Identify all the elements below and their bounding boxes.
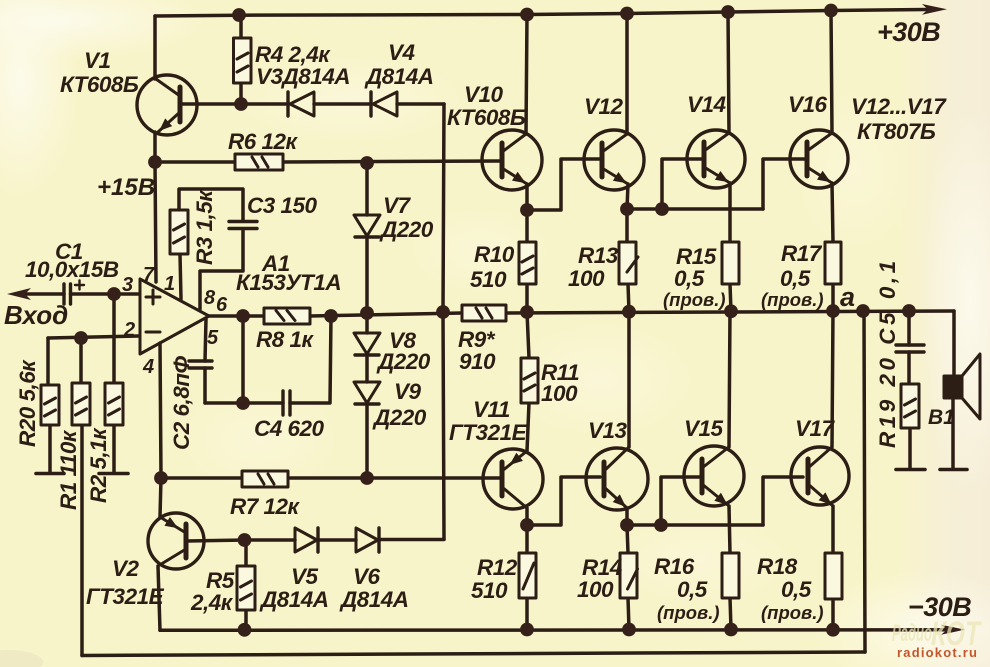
resistor R18 <box>825 553 842 599</box>
node top rail V12 <box>620 7 634 21</box>
wire V16 collector riser <box>831 11 832 134</box>
svg-text:radiokot.ru: radiokot.ru <box>897 645 978 660</box>
svg-text:R18: R18 <box>757 554 798 579</box>
wire R13 bottom stub <box>628 284 629 312</box>
wire speaker bottom <box>951 398 955 469</box>
svg-text:R6 12к: R6 12к <box>228 129 299 154</box>
svg-text:Д814А: Д814А <box>364 64 434 89</box>
svg-text:С4 620: С4 620 <box>254 416 325 441</box>
wire V12 emitter drop <box>627 184 628 209</box>
svg-text:V16: V16 <box>788 92 828 117</box>
svg-text:510: 510 <box>471 578 508 603</box>
wire R12 stubs <box>525 525 529 553</box>
wire C1 to pin 3 <box>71 292 140 296</box>
node C4 left <box>236 396 250 410</box>
svg-text:+15В: +15В <box>97 174 155 201</box>
svg-text:V10: V10 <box>464 82 504 107</box>
resistor R8 <box>264 308 310 324</box>
node top rail V10 <box>520 8 534 22</box>
wire V10 collector riser <box>526 15 527 134</box>
wire R5 bottom stub <box>244 610 248 630</box>
wire V7 to node <box>365 237 369 333</box>
svg-text:Радио: Радио <box>892 620 932 647</box>
wire R15 bottom stub <box>730 284 731 311</box>
resistor R4 <box>234 38 252 83</box>
wire +30V top rail <box>155 10 928 17</box>
node rail zobel <box>902 304 916 318</box>
diode V4 <box>371 92 397 116</box>
diode V9 <box>354 382 380 404</box>
wire riser to V14 base <box>662 159 702 209</box>
svg-text:С3 150: С3 150 <box>247 193 318 218</box>
resistor R19 <box>901 384 919 428</box>
wire R11 riser from rail <box>527 312 529 358</box>
transistor V16 <box>790 130 848 188</box>
wire V2 emitter riser <box>160 478 161 517</box>
svg-text:V11: V11 <box>473 397 510 422</box>
node V14 base riser <box>655 202 669 216</box>
svg-text:а: а <box>840 282 855 312</box>
wire riser to V17 base <box>763 477 803 525</box>
arrow -30V <box>941 625 965 635</box>
wire V16 emitter to R17 <box>832 183 833 242</box>
resistor R17 <box>825 242 841 284</box>
svg-text:V2: V2 <box>112 556 140 581</box>
wire R5 top stub <box>244 540 248 566</box>
svg-text:V5: V5 <box>291 564 319 589</box>
svg-text:(пров.): (пров.) <box>663 289 726 310</box>
node top rail V16 <box>824 4 838 18</box>
wire R11 to V11 emitter <box>527 403 529 451</box>
resistor R14 <box>620 553 638 598</box>
svg-text:(пров.): (пров.) <box>761 602 824 623</box>
resistor R13 <box>619 242 638 284</box>
wire pin3 node to R2 <box>112 294 116 383</box>
svg-text:V15: V15 <box>684 416 724 441</box>
wire node to R1 <box>79 338 83 383</box>
wire V17 collector riser <box>832 311 833 447</box>
svg-text:R19 20 С5 0,1: R19 20 С5 0,1 <box>875 257 900 448</box>
svg-text:(пров.): (пров.) <box>657 602 720 623</box>
wire C2 to C4 line <box>203 368 207 403</box>
diode V3 <box>288 92 314 116</box>
node bias column R9 <box>436 305 450 319</box>
node R6/V7 <box>360 156 374 170</box>
node top rail R4 <box>232 8 246 22</box>
wire input line <box>26 292 64 296</box>
wire V11 collector bus to V13 base <box>527 477 600 525</box>
diode V8 <box>354 333 380 355</box>
svg-text:V17: V17 <box>795 416 836 441</box>
wire bias column vertical <box>443 104 444 539</box>
node rail R15 <box>724 304 738 318</box>
svg-text:(пров.): (пров.) <box>761 289 824 310</box>
wire V5 to V6 <box>318 538 356 542</box>
node -30V R5 <box>238 623 252 637</box>
resistor R9 <box>462 305 506 321</box>
diode V5 <box>295 528 318 552</box>
resistor R11 <box>521 358 538 403</box>
node V10 emitter <box>520 203 534 217</box>
node op-amp output <box>236 309 250 323</box>
wire R7 line left <box>161 476 242 480</box>
wire op-amp output <box>209 314 264 318</box>
node V13 emitter <box>620 518 634 532</box>
svg-text:Д220: Д220 <box>376 349 431 374</box>
transistor V13 <box>586 447 648 510</box>
wire V10 emitter drop <box>525 184 529 210</box>
speaker B1 <box>944 354 980 419</box>
svg-text:100: 100 <box>568 266 605 291</box>
resistor R2 <box>105 383 123 425</box>
wire V10 emitter bus to V12 base <box>527 159 600 210</box>
svg-text:КТ608Б: КТ608Б <box>60 72 139 97</box>
wire C5 to R19 <box>907 352 911 384</box>
wire V15 collector riser <box>729 311 730 447</box>
wire C4 left <box>205 401 283 405</box>
wire V17 emitter to R18 <box>831 506 835 553</box>
capacitor C1 <box>64 281 84 305</box>
wire R17 bottom stub <box>831 284 835 311</box>
capacitor C5 <box>896 345 924 352</box>
svg-text:0,5: 0,5 <box>677 577 708 602</box>
svg-text:ГТ321Е: ГТ321Е <box>449 420 528 445</box>
node -30V R18 <box>826 623 840 637</box>
svg-text:+30В: +30В <box>877 17 940 47</box>
svg-text:V14: V14 <box>687 92 727 117</box>
svg-text:В1: В1 <box>928 406 955 429</box>
svg-text:100: 100 <box>541 381 578 406</box>
svg-text:Д814А: Д814А <box>339 587 409 612</box>
svg-text:V4: V4 <box>388 40 416 65</box>
svg-text:V12...V17: V12...V17 <box>851 94 947 119</box>
node R8 right <box>324 309 338 323</box>
diode V6 <box>356 528 379 552</box>
svg-text:2: 2 <box>123 319 135 341</box>
wire V12 collector riser <box>625 14 629 134</box>
wire zobel top <box>907 311 911 345</box>
wire V4 to bias column <box>397 102 444 106</box>
wire pin 1 to R3 <box>180 254 181 299</box>
wire R1 to feedback bottom line <box>80 425 84 656</box>
transistor V2 <box>148 513 204 569</box>
svg-text:4: 4 <box>142 356 154 378</box>
node V2 base R5 <box>238 533 252 547</box>
svg-text:R13: R13 <box>578 243 619 268</box>
svg-text:5: 5 <box>207 327 219 349</box>
wire pin 5 to C2 <box>205 319 206 361</box>
ground bar under R2 <box>99 472 128 476</box>
svg-text:R10: R10 <box>474 242 515 267</box>
svg-text:ГТ321Е: ГТ321Е <box>86 584 165 609</box>
wire R14 top <box>627 525 628 553</box>
svg-text:3: 3 <box>122 274 133 296</box>
wire R7 to V11 base <box>288 476 500 480</box>
node -30V R16 <box>724 623 738 637</box>
node rail R10 <box>520 305 534 319</box>
svg-text:R7 12к: R7 12к <box>230 494 301 519</box>
capacitor C4 <box>283 391 290 415</box>
wire C3 to pin 8 <box>200 229 243 309</box>
wire V11 collector drop <box>525 508 529 525</box>
svg-text:100: 100 <box>577 577 614 602</box>
wire V13 emitter drop <box>625 508 629 525</box>
wire V15 emitter to R16 <box>729 506 730 553</box>
wire V14 emitter to R15 <box>728 183 732 242</box>
capacitor C2 <box>189 361 212 368</box>
capacitor C3 <box>229 222 257 229</box>
transistor V1 <box>137 75 197 135</box>
wire feedback bottom line <box>82 652 865 656</box>
wire R2 to ground bar <box>112 425 116 473</box>
wire R10 bottom stub <box>525 284 529 312</box>
resistor R16 <box>722 553 739 598</box>
resistor R6 <box>235 154 283 170</box>
node V12 emitter <box>620 202 634 216</box>
arrow +30V <box>922 4 947 15</box>
node +15V <box>148 155 162 169</box>
node rail R17 <box>826 304 840 318</box>
svg-text:V13: V13 <box>588 418 628 443</box>
svg-text:К153УТ1А: К153УТ1А <box>236 270 341 295</box>
wire V7 column top <box>365 163 369 215</box>
ground bar under B1 <box>940 468 967 472</box>
svg-text:7: 7 <box>143 264 155 286</box>
wire R8 right to R9 <box>310 313 462 316</box>
node pin4 R7 <box>154 471 168 485</box>
svg-text:R2 5,1к: R2 5,1к <box>86 427 111 503</box>
svg-text:R8 1к: R8 1к <box>256 327 315 352</box>
resistor R15 <box>722 242 739 284</box>
resistor R3 <box>170 210 188 254</box>
wire R18 bottom <box>831 599 835 630</box>
wire V8 to V9 <box>365 356 369 382</box>
node V8 top <box>360 306 374 320</box>
wire inverting input line <box>48 336 139 338</box>
transistor V14 <box>687 130 745 188</box>
wire riser to V15 base <box>661 477 700 525</box>
wire V9 to R7 line <box>365 404 369 478</box>
svg-text:0,5: 0,5 <box>781 577 812 602</box>
svg-text:V12: V12 <box>584 94 624 119</box>
wire R12 bottom <box>525 598 529 629</box>
wire riser to V16 base <box>763 159 805 209</box>
wire C4 right riser <box>290 316 331 403</box>
svg-text:510: 510 <box>470 267 507 292</box>
wire R16 bottom <box>730 598 731 629</box>
wire output rail corner to speaker <box>952 311 956 376</box>
transistor V15 <box>684 446 744 506</box>
svg-text:0,5: 0,5 <box>780 266 811 291</box>
svg-text:6: 6 <box>216 294 228 316</box>
svg-text:R3 1,5к: R3 1,5к <box>192 189 217 265</box>
transistor V11 <box>483 449 543 509</box>
svg-text:8: 8 <box>204 287 216 309</box>
wire pin 4 down to R7 line <box>160 343 161 478</box>
wire R9 to output rail <box>506 311 954 313</box>
diode V7 <box>354 215 380 237</box>
svg-text:R16: R16 <box>654 554 695 579</box>
svg-text:Д814А: Д814А <box>259 587 329 612</box>
node inverting input <box>74 331 88 345</box>
svg-text:V7: V7 <box>383 193 412 218</box>
resistor R12 <box>519 553 536 598</box>
wire -30V rail <box>160 628 952 632</box>
wire R6 left <box>155 160 235 164</box>
svg-text:V6: V6 <box>353 564 381 589</box>
wire V14 collector riser <box>728 12 729 133</box>
wire V13 collector riser <box>627 312 631 447</box>
wire V1 base / diode row <box>181 102 288 106</box>
svg-text:КТ807Б: КТ807Б <box>857 119 936 144</box>
svg-text:V3Д814А: V3Д814А <box>256 64 350 89</box>
wire +15V node to op-amp pin 7 <box>155 162 156 282</box>
node top rail V14 <box>721 5 735 19</box>
node input pin3 <box>107 287 121 301</box>
wire V1 emitter to +15V node <box>153 132 157 162</box>
svg-text:С2 6,8пФ: С2 6,8пФ <box>169 355 194 450</box>
wire feedback right riser <box>864 311 865 652</box>
node -30V R14 <box>622 623 636 637</box>
arrow input Вход <box>7 288 31 300</box>
wire R19 to ground bar <box>908 428 912 469</box>
transistor V17 <box>791 447 849 506</box>
svg-text:910: 910 <box>459 349 496 374</box>
wire V2 collector to -30V rail <box>158 566 160 630</box>
svg-text:R20 5,6к: R20 5,6к <box>15 359 40 447</box>
wire R3 top jog to C3 <box>179 189 243 221</box>
wire output node down to C4 line <box>241 316 245 403</box>
svg-text:Д220: Д220 <box>379 217 434 242</box>
op-amp U1 triangle <box>140 279 209 354</box>
wire R5 node to V5 <box>246 538 295 542</box>
resistor R1 <box>72 383 90 425</box>
wire R20 to ground bar <box>48 425 52 473</box>
node rail R13 <box>622 305 636 319</box>
wire to R20 <box>46 338 50 385</box>
svg-text:V1: V1 <box>84 48 111 73</box>
wire R10 top stub <box>525 210 529 242</box>
wire R13 top stub <box>625 209 629 242</box>
ground bar under R19 <box>896 468 925 472</box>
wire R14 bottom <box>628 598 629 629</box>
wire V12 emitter bus <box>627 207 763 211</box>
node V11 collector <box>520 518 534 532</box>
wire R6 to V10 base <box>283 161 500 162</box>
wire V2 base to R5 node <box>187 540 246 541</box>
svg-text:R17: R17 <box>781 241 823 266</box>
resistor R5 <box>237 566 255 610</box>
node -30V R12 <box>520 623 534 637</box>
node V15 base riser <box>654 518 668 532</box>
svg-text:КТ608Б: КТ608Б <box>447 105 526 130</box>
wire V13 emitter bus <box>627 523 763 527</box>
resistor R7 <box>242 471 288 487</box>
wire V6 to bias column <box>380 538 444 542</box>
svg-text:R12: R12 <box>477 555 518 580</box>
resistor R20 <box>41 385 59 425</box>
node V9 R7 <box>360 471 374 485</box>
transistor V12 <box>584 130 644 190</box>
svg-text:2,4к: 2,4к <box>190 590 234 615</box>
transistor V10 <box>482 130 542 190</box>
wire V3 to V4 <box>314 102 371 106</box>
svg-text:0,5: 0,5 <box>674 266 705 291</box>
svg-text:1: 1 <box>164 273 175 295</box>
node V1 base <box>234 97 248 111</box>
wire V1 collector to top rail <box>153 16 157 79</box>
svg-text:Д220: Д220 <box>372 405 427 430</box>
wire R4 top stub <box>239 15 243 38</box>
svg-text:V9: V9 <box>394 379 422 404</box>
node rail feedback <box>856 304 870 318</box>
resistor R10 <box>519 242 536 284</box>
svg-text:Вход: Вход <box>4 300 68 330</box>
wire R4 bottom stub <box>239 83 243 104</box>
ground bar under R20 <box>36 472 64 476</box>
svg-text:R1 110к: R1 110к <box>56 429 81 510</box>
svg-text:10,0х15В: 10,0х15В <box>25 257 119 282</box>
